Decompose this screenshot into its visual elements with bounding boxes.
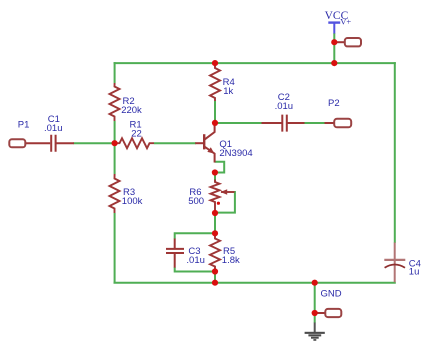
- node VCC port junction: [331, 39, 337, 45]
- wire R1 to Q1 base: [154, 142, 196, 144]
- port GND: [325, 309, 341, 317]
- transistor Q1 collector: [204, 123, 214, 140]
- power symbol V+ bar: [328, 21, 340, 23]
- wire collector node to C2: [215, 122, 263, 124]
- port P2: [334, 119, 351, 128]
- wire P1 lead: [25, 142, 50, 144]
- svg-text:GND: GND: [321, 288, 342, 299]
- transistor Q1 emitter arrow: [207, 147, 214, 153]
- svg-text:.01u: .01u: [275, 101, 294, 112]
- resistor R1 22: [115, 138, 155, 148]
- wire emitter jog to R6: [215, 162, 225, 173]
- transistor Q1 base stub: [195, 142, 203, 144]
- node collector junction: [212, 120, 218, 126]
- wire C3 bottom branch: [175, 267, 215, 271]
- potentiometer R6 500 body: [211, 180, 220, 214]
- wire R6 bottom to C3 tee: [214, 213, 216, 233]
- power symbol V+ stem: [333, 23, 335, 34]
- capacitor C4 1u lead: [394, 243, 396, 283]
- svg-text:100k: 100k: [122, 196, 143, 207]
- wire VCC port lead: [334, 41, 345, 43]
- capacitor C4 top plate: [384, 259, 405, 261]
- port P1: [9, 139, 25, 147]
- svg-text:1u: 1u: [409, 266, 420, 277]
- ground lead: [314, 323, 316, 333]
- resistor R2 220k: [110, 83, 120, 121]
- capacitor C1 .01u: [51, 135, 55, 152]
- ground symbol: [305, 332, 325, 341]
- wire C1 right lead: [56, 142, 74, 144]
- wire R6 wiper loop: [215, 192, 235, 213]
- capacitor C4 curved plate: [385, 265, 405, 268]
- potentiometer R6 wiper arrowhead: [220, 189, 227, 195]
- resistor R3 100k: [110, 174, 120, 213]
- wire GND port lead: [315, 312, 326, 314]
- node VCC rail junction: [331, 60, 337, 66]
- wire right rail (top rail to C4): [394, 62, 396, 243]
- capacitor C3 .01u leads: [174, 239, 176, 268]
- svg-text:22: 22: [131, 128, 142, 139]
- wire R6 top stub: [214, 173, 216, 182]
- wire VCC drop: [333, 33, 335, 63]
- node GND port junction: [312, 310, 318, 316]
- wire C1 to node A: [74, 142, 116, 144]
- node C3 top tee junction: [212, 230, 218, 236]
- capacitor C3 plates: [166, 249, 184, 253]
- svg-text:.01u: .01u: [186, 255, 205, 266]
- node R6 pin dot: [217, 202, 220, 205]
- svg-text:1k: 1k: [223, 86, 233, 97]
- node C3/R5 bottom junction: [212, 268, 218, 274]
- node R6 bottom junction: [212, 210, 218, 216]
- wire P2 lead: [325, 122, 336, 124]
- resistor R4 1k: [210, 65, 220, 102]
- capacitor C2 .01u: [282, 115, 287, 132]
- svg-text:P1: P1: [18, 119, 30, 130]
- svg-text:500: 500: [188, 196, 204, 207]
- wire bottom ground rail: [114, 282, 396, 284]
- svg-text:.01u: .01u: [44, 123, 63, 134]
- node GND rail junction: [312, 280, 318, 286]
- node A input/base junction: [112, 140, 118, 146]
- node emitter net rail junction: [212, 280, 218, 286]
- wire C2 left lead: [262, 122, 282, 124]
- svg-text:P2: P2: [328, 98, 340, 109]
- wire left rail upper (top rail to R2): [114, 62, 116, 83]
- node emitter/R6 top junction: [212, 169, 218, 175]
- transistor Q1 emitter: [204, 146, 214, 162]
- wire C3 top branch: [175, 233, 215, 239]
- wire R4 bottom to collector node: [214, 101, 216, 123]
- wire R5 bottom to rail: [214, 272, 216, 283]
- wire C2 to P2: [304, 122, 326, 124]
- wire C2 right lead: [288, 122, 305, 124]
- node R4 top rail junction: [212, 60, 218, 66]
- port VCC: [345, 38, 361, 46]
- wire left rail middle (R2 to R3 through node A): [114, 121, 116, 174]
- transistor Q1 2N3904 base bar: [203, 134, 205, 149]
- svg-text:2N3904: 2N3904: [219, 148, 252, 159]
- potentiometer R6 wiper line: [221, 191, 235, 193]
- resistor R5 1.8k: [210, 234, 220, 271]
- svg-text:1.8k: 1.8k: [222, 255, 240, 266]
- svg-text:V+: V+: [340, 17, 351, 27]
- wire top VCC rail: [114, 62, 396, 64]
- wire GND drop: [314, 283, 316, 323]
- svg-text:220k: 220k: [121, 105, 142, 116]
- wire left rail lower (R3 to bottom rail): [114, 213, 116, 283]
